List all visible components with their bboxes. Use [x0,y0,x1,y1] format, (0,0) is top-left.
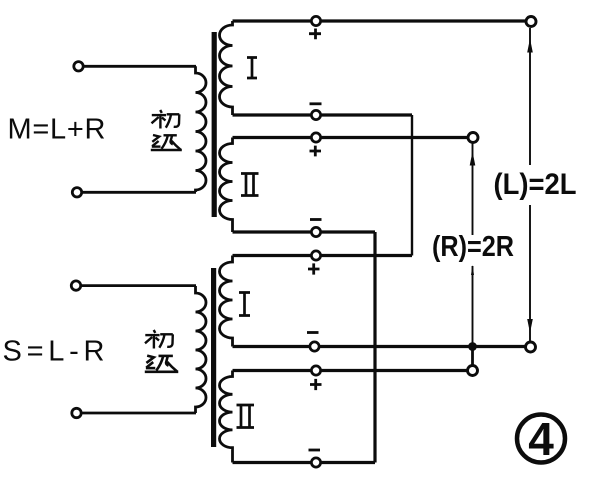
wire S minus to T2 primary [83,412,197,415]
svg-text:4: 4 [528,413,554,465]
transformer T2 secondary winding II [220,371,233,463]
terminal T1-I plus [311,16,320,25]
transformer T2 primary winding [196,286,207,413]
transformer T2 core [211,268,216,447]
output line L upper segment [529,28,531,165]
wire S plus to T2 primary [82,284,197,287]
label II on T2 secondary II [237,405,255,428]
output line R upper segment [472,144,474,236]
label minus T2-I [307,331,319,334]
transformer T1 primary winding [196,66,207,192]
terminal M minus [72,188,81,197]
transformer T2 secondary winding I [220,256,233,347]
label II on T1 secondary II [241,174,259,196]
label plus T2-II [310,379,322,390]
terminal T2-II minus [311,458,320,467]
transformer T1 secondary winding II [220,138,233,233]
wire vertical T1-II minus to T2-II minus [373,232,376,463]
output line L lower segment [529,205,531,343]
figure number 4 [517,413,565,465]
output terminal L top [526,17,536,27]
transformer T1 secondary winding I [220,21,233,115]
label plus T2-I [308,263,320,274]
transformer T1 core [212,32,217,217]
wire T2 secondary I plus [233,254,413,257]
terminal T1-II plus [311,133,320,142]
wire vertical T1-I minus to T2-I plus [411,115,413,256]
terminal S plus [71,281,80,290]
svg-text:(R)=2R: (R)=2R [432,231,514,263]
junction R line and T2-I minus wire [468,342,477,351]
svg-text:S=L-R: S=L-R [3,336,105,368]
wire T2 secondary I minus to L bottom terminal [233,345,526,348]
arrowhead R up [470,152,476,166]
output terminal R top [468,133,478,143]
wire T2 secondary II plus to R bottom terminal [233,369,468,372]
terminal M plus [74,62,83,71]
wire T2 secondary II minus [233,461,376,464]
wire M plus to T1 primary [84,65,196,68]
terminal T2-II plus [311,366,320,375]
wire M minus to T1 primary [83,191,197,194]
terminal T1-I minus [311,110,320,119]
terminal T1-II minus [311,227,320,236]
svg-text:(L)=2L: (L)=2L [494,168,577,201]
label minus T2-II [309,449,321,452]
arrowhead L up [527,39,533,53]
svg-text:M=L+R: M=L+R [8,114,106,146]
wire junction to R bottom terminal [471,347,474,366]
output terminal R bottom [468,366,478,376]
terminal T2-I plus [311,251,320,260]
output terminal L bottom [526,342,536,352]
label plus T1-I [309,29,321,40]
label chuji (primary) of T2 [145,330,178,372]
label minus T1-I [310,102,322,105]
arrowhead R small tip [471,265,474,275]
label minus T1-II [310,218,322,221]
wire T1 secondary I plus (top rail to L terminal) [233,19,527,22]
label I on T2 secondary I [239,293,250,316]
label plus T1-II [310,146,322,157]
label chuji (primary) of T1 [151,110,182,150]
terminal T2-I minus [310,342,319,351]
wire T1 secondary I minus [233,113,413,116]
wire T1 secondary II minus [233,230,376,233]
arrowhead L down [527,319,533,333]
wire T1 secondary II plus to R terminal [233,136,469,139]
terminal S minus [72,408,81,417]
output line R lower segment [472,266,474,347]
label I on T1 secondary I [247,58,257,79]
